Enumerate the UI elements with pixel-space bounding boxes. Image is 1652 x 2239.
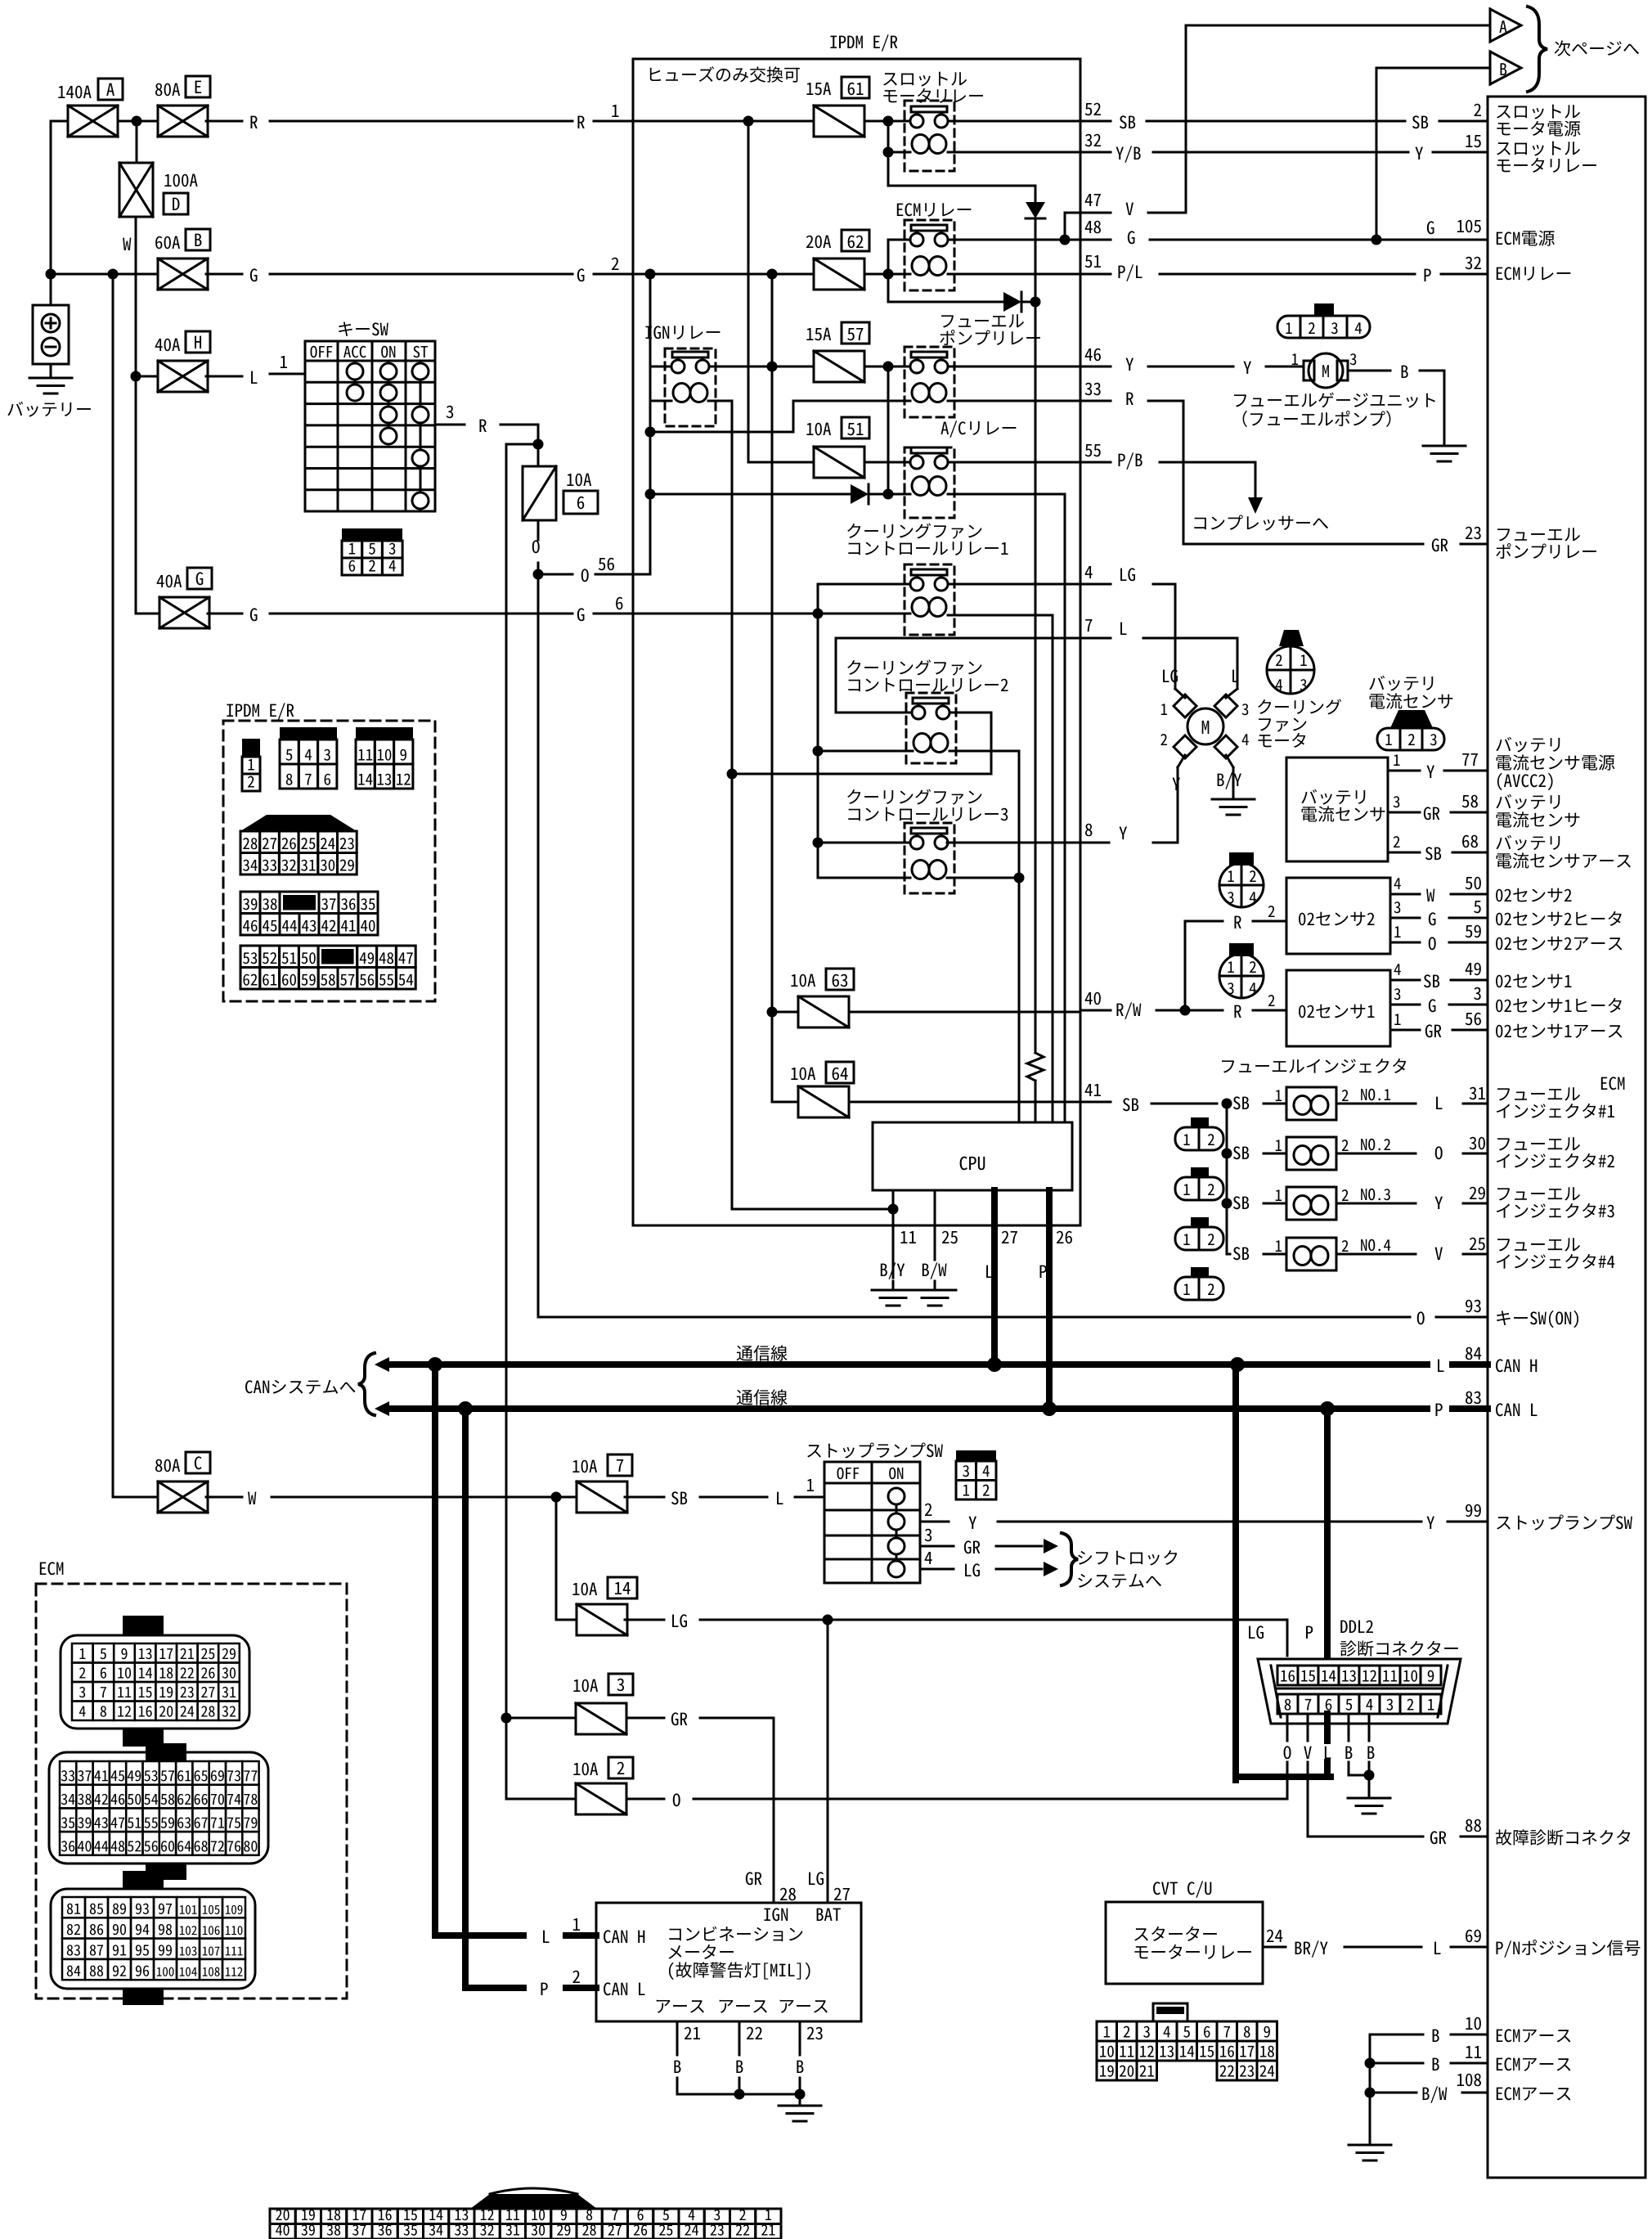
fuse 57 15A (806, 328, 831, 341)
CPU pin 25 ground (934, 1190, 936, 1260)
ground (meter) (799, 2094, 801, 2104)
CVT pin 24 BR/Y (1263, 1946, 1286, 1949)
IPDM connector 14pin (240, 892, 260, 914)
node 62 out (864, 273, 910, 276)
fuel pump motor M (1304, 361, 1314, 380)
ECM pin 40 row R/W (1080, 1009, 1111, 1012)
brace next page (1528, 7, 1547, 92)
node G-80AC branch (108, 269, 119, 280)
ground (ECM) (1369, 2034, 1371, 2143)
node R-10A51 branch (743, 116, 754, 127)
arrow A next page (1185, 25, 1187, 213)
label battery (7, 402, 90, 417)
node 100A-40AH (131, 371, 141, 382)
fusible link E 80A (158, 106, 208, 137)
IPDM connector 18pin (240, 946, 260, 968)
cooling fan control relay 3 (847, 789, 981, 804)
wire IGN contact out (709, 366, 814, 368)
DDL2 pin 4 B ground (1368, 1714, 1371, 1741)
DDL2 pin 6 L CAN H wire (1324, 1714, 1331, 1741)
wire R branch down (537, 425, 540, 444)
wire CF3 contact out pin 8 (947, 842, 1080, 844)
combination meter box (596, 1903, 861, 2021)
wire G down to fuses 57/63/64 (771, 274, 774, 1102)
diode D3 AC coil (650, 493, 851, 496)
wire CF2 contact out (949, 712, 991, 714)
wire G pin6 row (633, 613, 910, 615)
ECM pin 2 throttle motor power (1080, 120, 1111, 123)
cooling fan control relay 1 (847, 523, 981, 538)
injector no2 (1227, 1153, 1230, 1155)
CAN L nodes (458, 1401, 473, 1416)
wire CF1 contact out pin 4 (948, 583, 1080, 586)
fan connector 2143 (1267, 646, 1314, 694)
node G-fuse63 vertical (767, 269, 778, 280)
node 140A-80A junction (118, 120, 158, 123)
wire FP coil out pin 33 (948, 400, 1080, 402)
DDL2 diagnostic connector (1340, 1621, 1373, 1633)
ground (fuel pump) (1443, 371, 1446, 446)
ECM connector C 32pin (123, 1871, 164, 1889)
wire R row inside IPDM (633, 120, 814, 123)
CAN H bus (737, 1345, 788, 1360)
sensor pin 1 row 77 (1388, 770, 1420, 772)
IPDM connector 6pin B (356, 727, 413, 740)
injector connectors 12 (1175, 1127, 1223, 1150)
fuse 64 10A (791, 1068, 815, 1081)
wire fan pin2 Y to pin 8 (1178, 755, 1185, 767)
CPU pin 11 ground (892, 1190, 895, 1278)
fuse 63 10A (791, 974, 815, 987)
ECM pin 47 V to next page (1080, 212, 1111, 214)
CVT C/U starter motor relay (1153, 1881, 1211, 1897)
wire row 946 (732, 773, 991, 776)
wire pin 41 row (849, 1101, 1080, 1104)
O2-1 pin 3 row 3 (1390, 1004, 1420, 1006)
fusible link C 80A (158, 1481, 208, 1513)
meter ground join (677, 2093, 800, 2096)
DDL2 pin 8 O wire (1286, 1714, 1289, 1741)
wire pin 40 row (849, 1011, 1080, 1014)
wire LG down to DDL2 pin16 (1286, 1620, 1289, 1656)
ECM box (1488, 97, 1645, 2178)
ECM pin 46 Y to fuel pump (1080, 366, 1111, 368)
ground (battery) (50, 364, 52, 378)
key switch connector 153-624 (342, 528, 402, 541)
IPDM connector view box (227, 703, 294, 719)
wire pin7 row to CF2 (836, 637, 1080, 640)
cooling fan control relay 2 (847, 659, 981, 675)
node 57 out (864, 366, 910, 368)
CPU pin 26 CAN L (1046, 1190, 1053, 1409)
node pin47 branch (1060, 235, 1071, 245)
battery (33, 305, 69, 364)
wire G row battery to 60A (51, 273, 158, 276)
stop lamp SW pin 3 GR (920, 1545, 954, 1548)
wire 57out to AC coil row (887, 366, 890, 494)
injector no1 (1080, 1101, 1111, 1104)
ECM connector A 32pin (123, 1616, 164, 1635)
O2-1 pin 1 row 56 (1390, 1029, 1420, 1032)
wire R row to IPDM pin 1 (206, 120, 242, 123)
wire ECM relay contact feed (887, 240, 890, 302)
wire throttle relay out to diode (888, 185, 1035, 187)
O2 sensor 1 connector (1219, 954, 1264, 998)
wire SB to stop lamp SW (625, 1496, 664, 1499)
wire W from 100A (135, 217, 137, 614)
wire CF1 coil out (948, 614, 1053, 617)
sensor pin 2 row 68 (1388, 852, 1420, 854)
wire O down to ECM pin 93 (537, 574, 540, 1317)
wire O2-2 pin2 (1185, 920, 1223, 923)
node diode row (1030, 297, 1041, 308)
IPDM connector 12pin (240, 815, 357, 831)
fuse 7 10A (572, 1460, 597, 1473)
fusible link D 100A (136, 121, 138, 163)
wire FP contact out pin 46 (948, 366, 1080, 368)
O2 sensor 2 connector (1219, 863, 1264, 907)
fuse 14 10A (572, 1583, 597, 1596)
wire IGN coil out down (708, 400, 732, 402)
CVT connector tab (1153, 2003, 1187, 2021)
AC relay (940, 420, 1016, 437)
wire ECM coil out pin 51 (948, 273, 1080, 276)
ECM relay (897, 203, 972, 217)
wire CAN L to meter (462, 1409, 469, 1988)
ECM pin 88 fault diagnosis (1308, 1836, 1423, 1838)
meter IGN pin 28 (746, 1872, 761, 1885)
CAN brace to CAN system (245, 1380, 355, 1394)
CAN L bus (737, 1389, 788, 1405)
DDL2 pin 5 B wire (1348, 1714, 1350, 1741)
diode D2 ECM coil (888, 301, 1003, 303)
fusible link A 140A (68, 106, 118, 137)
O2 sensor 2 box (1286, 878, 1390, 954)
fuse 3 10A (573, 1679, 598, 1693)
stop lamp SW contacts (896, 1496, 898, 1569)
ECM pin 23 fuel pump relay (1183, 543, 1423, 546)
resistor R1 (1027, 1053, 1044, 1081)
O2-1 pin 4 row 49 (1390, 979, 1420, 982)
wire coil out pin 32 (948, 151, 1080, 154)
wire 80AC feed (112, 274, 114, 1497)
fuel pump relay (941, 314, 1024, 327)
wire CAN H to meter (432, 1365, 438, 1936)
wire throttle relay coil feed (887, 121, 890, 186)
node CF2/CF3 coil join (1014, 873, 1025, 883)
wire G row to IPDM pin 6 (208, 613, 242, 615)
injector no3 (1233, 1196, 1249, 1209)
CVT 24pin connector (1097, 2021, 1117, 2041)
wire L row to key switch (206, 375, 242, 378)
brace shift lock (1062, 1533, 1078, 1585)
diode D1 vertical (1035, 186, 1037, 202)
fuse 2 10A (573, 1763, 598, 1776)
wire AC coil out to CPU (948, 493, 1065, 496)
ECM pin 108 ground B/W (1370, 2092, 1416, 2094)
wire R down to 10A51 (747, 121, 750, 462)
wire G row to IPDM pin 2 (206, 273, 242, 276)
wire CF2 coil out (949, 750, 1019, 753)
fuel gauge connector 1234 (1277, 316, 1370, 338)
node G-IGN relay (645, 269, 656, 280)
node battery-60A (46, 269, 56, 280)
wire O to IPDM pin 56 (538, 573, 572, 576)
wire relay contact out pin 52 (948, 120, 1080, 123)
IPDM connector 6pin A (280, 727, 337, 740)
key switch contacts ST (420, 371, 422, 501)
ECM pin 105 ECM power (1080, 239, 1111, 241)
wire R feed to 10A3/10A2 (505, 444, 508, 1799)
wire ECM relay contact out pin 48 (948, 239, 1080, 241)
O2-2 pin 4 row 50 (1390, 893, 1420, 896)
sensor pin 3 row 58 (1388, 812, 1420, 814)
node coil-return rows (727, 769, 738, 780)
ECM pin 11 ground B (1370, 2062, 1423, 2065)
ECM pin 15 throttle motor relay (1080, 151, 1111, 154)
meter BAT pin 27 (827, 1620, 829, 1903)
O2-2 pin 3 row 5 (1390, 917, 1420, 919)
wire CF vertical feed (817, 584, 819, 878)
wire O to DDL2 (626, 1798, 664, 1801)
label battery current sensor connector (1369, 676, 1433, 691)
wire GR to meter IGN (626, 1717, 664, 1720)
fusible link H 40A (158, 361, 208, 392)
ECM connector B 48pin (146, 1743, 186, 1761)
wire IGN relay feeds (649, 274, 652, 574)
fuse 51 10A (806, 423, 831, 436)
O2-2 pin 1 row 59 (1390, 942, 1420, 944)
IPDM connector small (242, 739, 260, 757)
ECM pin 7 L cooling fan (1080, 637, 1111, 640)
stop lamp switch (807, 1443, 943, 1459)
fuse 6 10A (537, 444, 540, 466)
injector no4 (1227, 1253, 1230, 1256)
key switch contacts ACC (354, 371, 357, 393)
wire O from fuse 6 (537, 520, 540, 540)
wire LG from fuse 14 (625, 1619, 664, 1621)
fuse 61 15A (806, 83, 831, 96)
key switch pin 3 output R (435, 424, 465, 426)
node W-10A14 branch (551, 1492, 562, 1503)
stop lamp SW pin 2 Y (920, 1521, 949, 1523)
arrow B next page (1376, 68, 1378, 236)
harness connector 40pin (470, 2194, 597, 2209)
node 61 out (864, 120, 910, 123)
O2 sensor 1 box (1286, 970, 1390, 1046)
ECM pin 93 key SW ON (538, 1316, 1410, 1319)
wire O pin56 entry (633, 573, 650, 576)
wire CF3 coil out (947, 877, 1019, 879)
fusible link G 40A (159, 597, 209, 628)
CPU pin 27 CAN H (991, 1190, 998, 1365)
label fuel injectors (1222, 1059, 1406, 1073)
CAN H nodes (428, 1357, 442, 1372)
wire G row inside IPDM (633, 273, 814, 276)
stop lamp SW pin 4 LG (920, 1568, 954, 1571)
fuse 62 20A (806, 236, 831, 249)
CPU (873, 1122, 1072, 1190)
ECM pin 10 ground B (1370, 2034, 1423, 2036)
key switch contacts ON (388, 371, 390, 436)
meter ground pins (657, 2000, 704, 2013)
wire P CAN L to DDL2 pin14 (1324, 1409, 1331, 1656)
key switch table (339, 321, 388, 336)
ECM pin 32 ECM relay (1080, 273, 1111, 276)
stop lamp connector 34-12 (956, 1450, 996, 1461)
ECM pin 55 P/B to compressor (1080, 461, 1111, 464)
DDL2 pin 7 V wire (1307, 1714, 1309, 1741)
battery current sensor box (1286, 758, 1388, 861)
label fuel gauge unit (1234, 393, 1435, 408)
node 63 feed (767, 1007, 778, 1018)
ECM pin 4 LG cooling fan (1080, 583, 1111, 586)
ECM connector view box (40, 1562, 64, 1575)
fusible link B 60A (158, 259, 208, 290)
throttle motor relay (883, 72, 967, 87)
wire fuel pump coil feed (650, 431, 793, 434)
IPDM E/R box (830, 34, 897, 51)
ECM pin 33 R fuel pump relay (1080, 400, 1111, 402)
wire battery bus (50, 121, 52, 305)
battery current sensor connector 123 (1377, 728, 1444, 750)
wire AC contact out pin 55 (864, 461, 910, 464)
wire injector feed vertical (1226, 1104, 1228, 1254)
IGN relay (645, 326, 720, 339)
cooling fan motor M (1187, 708, 1223, 744)
wire fan pin4 B/Y ground (1226, 755, 1233, 767)
wire W row to stop lamp fuses (206, 1496, 242, 1499)
node CF feeds (813, 609, 824, 619)
label cooling fan motor (1258, 699, 1341, 714)
